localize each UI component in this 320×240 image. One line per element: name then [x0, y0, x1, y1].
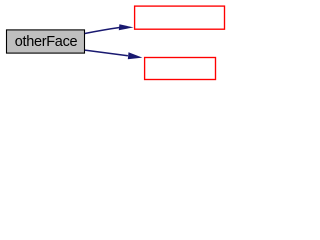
node truncated box bottom — [145, 58, 216, 80]
edge otherFace to top box — [85, 24, 134, 33]
node otherFace — [7, 30, 85, 53]
edge otherFace to bottom box — [85, 50, 143, 59]
node truncated box top — [135, 6, 225, 29]
svg-text:otherFace: otherFace — [15, 34, 78, 50]
